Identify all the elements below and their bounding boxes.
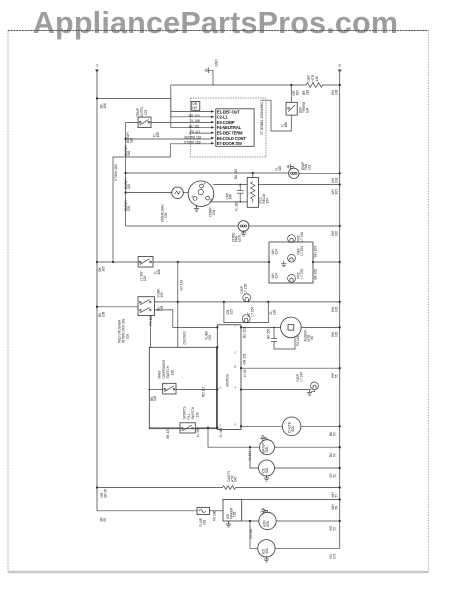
svg-text:F4-NEUTRAL: F4-NEUTRAL <box>217 125 242 130</box>
wire water valve to N <box>276 520 340 522</box>
svg-text:TM 162: TM 162 <box>249 528 253 539</box>
svg-text:161: 161 <box>202 519 206 525</box>
wire interlock feed <box>97 306 138 308</box>
svg-text:140: 140 <box>315 76 319 82</box>
wire ice valve run <box>249 520 251 522</box>
node evap branch <box>124 172 126 174</box>
svg-text:124: 124 <box>274 273 278 279</box>
wire pin E6 from temp ctl <box>126 138 211 140</box>
ground ice valve <box>265 557 267 559</box>
switch light SW 129 <box>138 257 153 268</box>
svg-text:R: R <box>204 183 206 186</box>
svg-text:SOL: SOL <box>266 520 270 527</box>
lamp REF LT 251 <box>288 254 296 262</box>
svg-text:106: 106 <box>156 132 160 138</box>
wire water sol run <box>208 428 260 447</box>
capacitor auger <box>273 327 275 329</box>
motor auger 60 <box>281 317 302 338</box>
svg-text:139: 139 <box>195 412 199 418</box>
ground (top, defrost heater) <box>206 68 212 73</box>
solenoid chute <box>282 417 301 436</box>
defrost timer pin box 12 <box>216 109 254 147</box>
wire L1 bus (left vertical) <box>96 70 98 511</box>
resistor cavity heater <box>223 486 340 490</box>
frame top rule through logo <box>8 30 429 32</box>
svg-text:E5-DEF TERM: E5-DEF TERM <box>217 131 243 136</box>
svg-text:101: 101 <box>334 177 338 183</box>
svg-text:57: 57 <box>334 494 338 498</box>
svg-text:BU 152: BU 152 <box>243 327 247 338</box>
svg-text:135: 135 <box>127 205 131 211</box>
svg-text:106: 106 <box>157 269 161 275</box>
svg-text:BK 134: BK 134 <box>166 428 170 439</box>
svg-text:58: 58 <box>334 506 338 510</box>
svg-text:H: H <box>96 64 100 67</box>
svg-text:BK 05: BK 05 <box>103 489 107 498</box>
wire gnd stub <box>212 70 214 85</box>
node interlock branch <box>96 306 98 308</box>
lamp FRZ LT 240 <box>288 235 296 243</box>
svg-text:5: 5 <box>235 424 237 427</box>
svg-text:156: 156 <box>233 511 237 517</box>
svg-text:110: 110 <box>129 138 133 143</box>
svg-text:WH 103: WH 103 <box>314 246 318 258</box>
capacitor 136 <box>239 184 241 186</box>
svg-text:106: 106 <box>103 103 107 109</box>
svg-text:110: 110 <box>334 231 338 236</box>
wire cond fan run <box>126 225 239 227</box>
wire pin E4 <box>171 127 211 129</box>
svg-text:(SILVER): (SILVER) <box>183 331 187 344</box>
ground cond fan <box>243 231 245 233</box>
svg-text:3: 3 <box>235 352 237 355</box>
svg-text:LT 240: LT 240 <box>300 232 304 242</box>
svg-text:123: 123 <box>229 309 233 315</box>
solenoid water valve <box>259 512 276 529</box>
svg-text:SOL: SOL <box>265 547 269 554</box>
svg-text:10: 10 <box>234 365 237 368</box>
wire cavity heater run <box>97 487 223 489</box>
svg-text:YL 116: YL 116 <box>235 202 239 212</box>
switch main dispenser <box>163 383 176 394</box>
wire compressor S to cap/PTC <box>210 201 248 203</box>
wire ice valve to N <box>275 547 340 549</box>
svg-text:126: 126 <box>272 309 276 315</box>
svg-text:167: 167 <box>192 106 198 110</box>
svg-text:N: N <box>338 64 342 67</box>
svg-text:6: 6 <box>220 387 222 390</box>
svg-text:123: 123 <box>144 109 148 115</box>
pins SW/PCB <box>216 326 218 328</box>
svg-text:105: 105 <box>334 189 338 195</box>
svg-text:171: 171 <box>332 553 336 559</box>
svg-text:52: 52 <box>332 474 336 478</box>
night light loop box <box>224 302 268 323</box>
wire lamp box to N <box>313 261 340 263</box>
solenoid ice valve <box>258 540 275 557</box>
wire water valve run <box>242 520 259 522</box>
wire light run <box>97 261 138 263</box>
wire evap fan to N <box>299 172 340 174</box>
node bus junction heater <box>339 84 341 86</box>
svg-text:LT 250: LT 250 <box>243 284 247 294</box>
wire L1 to timer C2 <box>97 98 211 116</box>
svg-text:53: 53 <box>332 432 336 436</box>
wire PTC to N <box>258 184 339 186</box>
wire chute sol to N <box>301 425 340 427</box>
svg-text:59: 59 <box>332 527 336 531</box>
svg-text:BR 163: BR 163 <box>189 114 200 118</box>
svg-text:116: 116 <box>278 166 282 171</box>
wire light run 2 <box>153 261 269 263</box>
svg-text:60: 60 <box>310 336 314 340</box>
ground ice maker <box>228 521 230 524</box>
svg-text:133: 133 <box>164 212 168 218</box>
wire pin E7 door sw (VT/WH 169) <box>113 144 211 262</box>
wire auger start winding <box>274 338 295 349</box>
frame bottom thick rule <box>8 571 429 573</box>
solenoid ice <box>259 460 275 476</box>
wire ice maker to N top <box>242 498 340 500</box>
svg-text:SW/PCB: SW/PCB <box>226 374 230 387</box>
svg-text:108: 108 <box>334 89 338 95</box>
main dispenser switch box 138 <box>149 347 216 428</box>
defrost timer outer dashed box <box>190 98 266 157</box>
svg-text:BU 161: BU 161 <box>189 125 200 129</box>
svg-text:TM 160: TM 160 <box>213 510 217 521</box>
wire auger run <box>241 326 281 328</box>
wire compressor R to cap/PTC <box>213 184 247 186</box>
ground evap fan <box>290 167 294 169</box>
wire def therm drop <box>290 85 292 102</box>
node light branch <box>96 261 98 263</box>
svg-text:163: 163 <box>295 90 299 96</box>
connector SW/PCB box <box>217 325 241 430</box>
svg-text:YL 61: YL 61 <box>243 369 247 377</box>
lamp disp cavity <box>311 382 319 390</box>
wire pin E1 <box>171 111 211 113</box>
wire dispenser light to N <box>242 301 340 303</box>
wire fuse to icemaker <box>210 510 224 512</box>
svg-text:115: 115 <box>127 184 131 189</box>
svg-text:E7-DOOR SW: E7-DOOR SW <box>217 141 242 146</box>
switch crusher interlock 101 <box>138 297 154 316</box>
resistor defrost heater <box>306 83 340 88</box>
node def therm junction <box>290 84 292 86</box>
svg-text:E1-DEF OUT: E1-DEF OUT <box>217 109 240 114</box>
motor cond fan <box>238 221 249 232</box>
svg-text:142: 142 <box>234 476 238 482</box>
defrost thermostat box 104 <box>286 102 297 115</box>
svg-text:M: M <box>210 199 212 202</box>
svg-text:GN 151: GN 151 <box>243 353 247 364</box>
ground water valve <box>264 510 268 512</box>
solenoid water <box>260 440 275 455</box>
wire dispenser light run <box>154 301 241 303</box>
svg-text:05: 05 <box>103 518 107 522</box>
svg-text:2: 2 <box>220 424 222 427</box>
wire pin10 to N <box>241 367 340 369</box>
svg-text:104: 104 <box>306 107 310 113</box>
svg-text:131: 131 <box>212 209 216 215</box>
svg-text:54: 54 <box>332 453 336 457</box>
ground ice sol <box>266 476 268 478</box>
overload 135 <box>172 187 184 199</box>
svg-text:162: 162 <box>127 150 131 156</box>
svg-text:124: 124 <box>274 249 278 255</box>
wire temp sw feed drop <box>126 123 139 226</box>
svg-text:SOL: SOL <box>291 425 295 432</box>
svg-text:SOL: SOL <box>265 446 269 453</box>
pin arrows <box>211 110 214 144</box>
wire interlock lower out <box>154 310 216 328</box>
svg-text:VT/WH 169: VT/WH 169 <box>184 141 201 145</box>
ground water sol <box>264 438 268 440</box>
svg-text:BK 155: BK 155 <box>267 328 271 339</box>
wire def therm return <box>261 100 292 131</box>
svg-text:101: 101 <box>126 333 130 339</box>
ice maker box 156 <box>223 499 242 521</box>
svg-text:4: 4 <box>235 387 237 390</box>
PTC relay 134 <box>247 177 258 207</box>
svg-text:LT 254: LT 254 <box>250 307 254 317</box>
svg-text:159: 159 <box>160 292 164 298</box>
svg-text:120: 120 <box>334 331 338 337</box>
wire disp lamp <box>241 389 311 391</box>
ground disp lamp <box>311 390 315 392</box>
motor evap fan 121 <box>289 168 299 178</box>
node cavity heater branch <box>96 486 98 488</box>
svg-text:121: 121 <box>307 164 311 170</box>
svg-text:YL 118: YL 118 <box>219 428 223 438</box>
node dispenser feed <box>177 261 179 263</box>
defrost heater HTR wire <box>171 84 306 86</box>
svg-text:159: 159 <box>208 334 212 340</box>
svg-text:VT/WH 169: VT/WH 169 <box>114 164 118 181</box>
svg-text:GY 149: GY 149 <box>180 280 184 291</box>
svg-text:136: 136 <box>229 194 233 200</box>
wire auger to N <box>301 326 340 328</box>
wire cond fan to N <box>249 225 340 227</box>
wire ice maker feed <box>97 510 197 512</box>
lamp FRZ LT 252 <box>288 275 296 283</box>
wire pin E5 <box>189 132 211 134</box>
svg-text:LT 245: LT 245 <box>299 372 303 382</box>
svg-text:AppliancePartsPros.com: AppliancePartsPros.com <box>33 6 398 40</box>
wire compressor run <box>126 192 173 194</box>
wire sports fill <box>149 427 180 429</box>
svg-text:BU/WH 162: BU/WH 162 <box>185 135 202 139</box>
lamp NT LT 254 <box>242 315 250 323</box>
svg-text:138: 138 <box>170 370 174 376</box>
svg-text:SOL: SOL <box>265 467 269 474</box>
wire N bus (right vertical) <box>339 70 341 548</box>
svg-text:BU 115: BU 115 <box>234 169 238 180</box>
svg-text:134: 134 <box>265 198 269 204</box>
svg-text:123: 123 <box>334 306 338 312</box>
svg-text:RD 117: RD 117 <box>202 386 206 397</box>
svg-text:E6-COLD CONT: E6-COLD CONT <box>217 136 247 141</box>
wire ice sol to N <box>275 467 340 469</box>
svg-text:55: 55 <box>334 374 338 378</box>
svg-text:GND: GND <box>215 59 219 67</box>
svg-text:LT 252: LT 252 <box>300 269 304 279</box>
wire PTC top to evap run <box>252 173 254 177</box>
lamp box <box>269 242 313 283</box>
wire evap fan run <box>126 172 289 174</box>
wire PK 112 drop <box>150 316 152 348</box>
svg-text:TM 149: TM 149 <box>296 335 300 346</box>
wire water sol to N <box>275 446 340 448</box>
svg-text:105: 105 <box>153 395 157 401</box>
compressor motor 131 <box>183 192 189 194</box>
ground compressor <box>195 205 197 209</box>
wire main switch to pin <box>149 389 162 391</box>
wire ice sol run <box>249 446 251 448</box>
svg-text:PK 112: PK 112 <box>149 315 153 325</box>
svg-text:PK 112: PK 112 <box>190 130 200 134</box>
lamp DISP LT 250 <box>243 294 251 302</box>
wire dispenser feed drop GY 149 <box>177 262 179 347</box>
connector OR 167 <box>191 102 200 111</box>
svg-text:108: 108 <box>101 311 105 317</box>
svg-text:161: 161 <box>305 89 309 95</box>
svg-text:YL 118: YL 118 <box>196 428 200 438</box>
svg-text:DEFROST TIMER 12: DEFROST TIMER 12 <box>260 103 264 135</box>
svg-text:166: 166 <box>284 122 288 128</box>
svg-text:BK 108: BK 108 <box>314 269 318 280</box>
svg-text:105: 105 <box>101 266 105 272</box>
svg-text:C2-L1: C2-L1 <box>217 115 228 120</box>
wire chute sol run <box>241 425 282 427</box>
svg-text:E3-COMP: E3-COMP <box>217 120 235 125</box>
svg-text:MTR: MTR <box>238 234 242 242</box>
svg-text:LT 251: LT 251 <box>300 246 304 256</box>
ground lamp box <box>281 261 286 267</box>
fuse 161 <box>197 508 210 515</box>
svg-text:129: 129 <box>143 275 147 281</box>
node compressor branch <box>124 191 126 193</box>
wire timer pin riser <box>170 85 172 128</box>
node cold cont <box>124 138 126 140</box>
wire temp sw to E3 <box>151 122 211 124</box>
